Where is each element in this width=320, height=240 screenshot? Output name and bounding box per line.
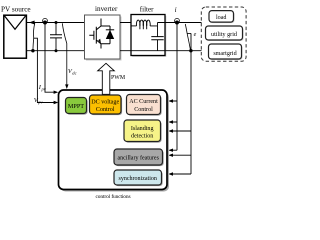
svg-text:dc: dc <box>72 71 76 76</box>
svg-text:Islanding: Islanding <box>131 126 154 132</box>
svg-text:utility grid: utility grid <box>211 32 237 38</box>
svg-text:MPPT: MPPT <box>68 103 84 110</box>
svg-text:PV source: PV source <box>1 6 31 14</box>
svg-text:PWM: PWM <box>111 75 126 81</box>
svg-text:inverter: inverter <box>95 5 118 13</box>
svg-text:Control: Control <box>96 107 115 113</box>
svg-text:smartgrid: smartgrid <box>213 51 236 57</box>
svg-text:detection: detection <box>131 133 153 139</box>
svg-text:filter: filter <box>140 6 154 14</box>
svg-text:e: e <box>194 32 197 38</box>
svg-text:control functions: control functions <box>96 193 131 200</box>
svg-text:i: i <box>175 6 177 14</box>
svg-text:load: load <box>216 15 227 21</box>
svg-text:DC voltage: DC voltage <box>91 100 119 106</box>
svg-text:Control: Control <box>134 107 153 113</box>
svg-text:synchronization: synchronization <box>119 176 157 182</box>
svg-text:ancillary features: ancillary features <box>117 154 159 161</box>
svg-text:AC Current: AC Current <box>129 99 158 105</box>
